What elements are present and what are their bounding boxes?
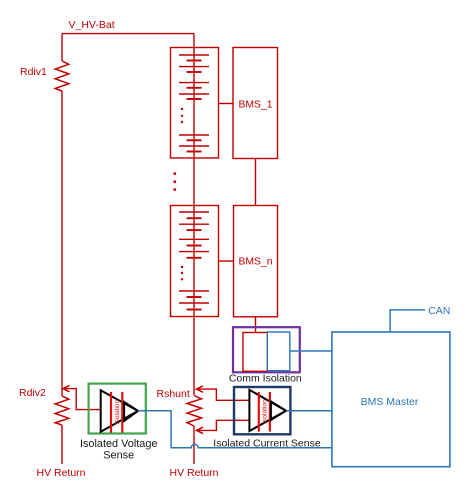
svg-text:HV Return: HV Return	[36, 467, 85, 479]
svg-text:Rdiv1: Rdiv1	[20, 66, 47, 78]
svg-text:CAN: CAN	[428, 305, 450, 317]
svg-text:Rshunt: Rshunt	[157, 388, 190, 400]
svg-text:BMS_n: BMS_n	[238, 257, 272, 268]
svg-text:Isolated Current Sense: Isolated Current Sense	[213, 437, 321, 449]
svg-text:BMS_1: BMS_1	[238, 100, 272, 111]
svg-text:V_HV-Bat: V_HV-Bat	[69, 19, 115, 31]
svg-text:HV Return: HV Return	[169, 467, 218, 479]
svg-text:Isolated Voltage: Isolated Voltage	[80, 438, 158, 450]
svg-text:Isolation: Isolation	[114, 399, 121, 424]
svg-text:Sense: Sense	[103, 450, 134, 462]
svg-text:Comm Isolation: Comm Isolation	[229, 373, 302, 385]
svg-text:BMS Master: BMS Master	[361, 396, 419, 408]
svg-text:Isolation: Isolation	[262, 399, 269, 424]
svg-text:Rdiv2: Rdiv2	[19, 387, 46, 399]
